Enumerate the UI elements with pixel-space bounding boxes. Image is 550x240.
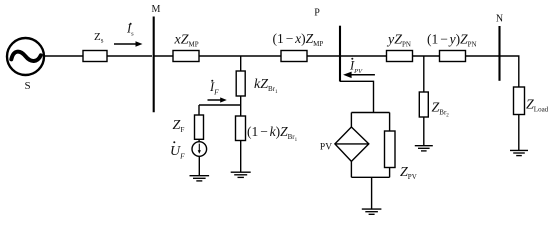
bus M bbox=[153, 17, 155, 113]
svg-text:xZMP: xZMP bbox=[174, 33, 199, 49]
label IF bbox=[209, 80, 219, 97]
label yZPN bbox=[386, 33, 411, 49]
label M bbox=[152, 4, 161, 15]
svg-text:ZLoad: ZLoad bbox=[526, 98, 549, 114]
resistor yZPN bbox=[387, 51, 413, 62]
ground below ZBr2 bbox=[415, 146, 433, 151]
wire bottom rail to ground bbox=[371, 177, 373, 208]
wire fault node to fault branch bbox=[199, 104, 241, 106]
label ZPV bbox=[400, 165, 417, 181]
wire ZLoad to ground bbox=[518, 115, 520, 151]
resistor ZF bbox=[195, 115, 204, 139]
wire yZPN to (1-y)ZPN with junction node bbox=[413, 55, 440, 57]
label xZMP bbox=[174, 33, 199, 49]
svg-text:M: M bbox=[152, 4, 161, 15]
ground below PV bbox=[362, 209, 382, 214]
label Zs bbox=[94, 31, 104, 45]
label (1-x)ZMP bbox=[273, 31, 324, 48]
svg-text:Is: Is bbox=[126, 22, 134, 38]
label IPV bbox=[349, 58, 363, 75]
wire bus M to xZMP bbox=[153, 55, 173, 57]
wire kZBr1 to fault node bbox=[240, 96, 242, 116]
label Is bbox=[126, 22, 134, 38]
svg-text:kZBr1: kZBr1 bbox=[254, 77, 278, 95]
PV top rail bbox=[351, 112, 389, 114]
svg-text:(1 − k)ZBr1: (1 − k)ZBr1 bbox=[247, 124, 298, 143]
wire Zs to bus M bbox=[107, 55, 152, 57]
label ZF bbox=[173, 118, 185, 134]
svg-text:ZF: ZF bbox=[173, 118, 185, 134]
wire bus N to ZLoad bbox=[500, 56, 519, 87]
label S bbox=[24, 80, 30, 92]
ground below (1-k)ZBr1 bbox=[231, 172, 251, 177]
ground below ZLoad bbox=[510, 150, 528, 155]
wire PV source to bottom rail bbox=[350, 161, 352, 177]
resistor (1-y)ZPN bbox=[440, 51, 466, 62]
svg-text:N: N bbox=[496, 14, 503, 25]
wire (1-x)ZMP to bus P bbox=[307, 55, 340, 57]
ground below UF bbox=[190, 176, 210, 181]
label UF bbox=[170, 141, 185, 160]
wire junction to kZBr1 bbox=[240, 56, 242, 72]
resistor Zs bbox=[83, 51, 107, 62]
resistor xZMP bbox=[173, 51, 199, 62]
current arrow IF bbox=[208, 97, 227, 102]
wire ZF to UF bbox=[198, 139, 200, 142]
wire (1-y)ZPN to bus N bbox=[466, 55, 500, 57]
wire top rail to ZPV bbox=[389, 113, 391, 132]
label ZBr2 bbox=[432, 101, 450, 119]
svg-text:ZBr2: ZBr2 bbox=[432, 101, 450, 119]
resistor ZLoad bbox=[514, 87, 525, 115]
wire top rail to PV source bbox=[350, 113, 352, 128]
svg-text:Zs: Zs bbox=[94, 31, 104, 45]
label ZLoad bbox=[526, 98, 549, 114]
resistor kZBr1 bbox=[236, 71, 245, 96]
svg-text:UF: UF bbox=[170, 144, 185, 161]
current arrow Is bbox=[114, 41, 143, 47]
svg-text:ZPV: ZPV bbox=[400, 165, 417, 181]
svg-text:PV: PV bbox=[320, 143, 332, 153]
label P bbox=[314, 8, 320, 19]
svg-text:S: S bbox=[24, 80, 30, 92]
wire bus P to yZPN bbox=[340, 55, 387, 57]
svg-text:IF: IF bbox=[209, 80, 219, 97]
wire junction to ZBr2 bbox=[423, 56, 425, 92]
svg-text:yZPN: yZPN bbox=[386, 33, 411, 49]
svg-text:(1 − x)ZMP: (1 − x)ZMP bbox=[273, 31, 324, 48]
bus P bbox=[339, 26, 341, 82]
AC source S bbox=[7, 38, 44, 75]
wire UF to ground bbox=[198, 156, 200, 175]
label PV bbox=[320, 143, 332, 153]
voltage source UF bbox=[192, 142, 207, 157]
label N bbox=[496, 14, 503, 25]
label (1-k)ZBr1 bbox=[247, 124, 298, 143]
PV current source (diamond) bbox=[335, 127, 369, 161]
wire xZMP to (1-x)ZMP with junction node bbox=[199, 55, 281, 57]
svg-text:P: P bbox=[314, 8, 320, 19]
resistor ZBr2 bbox=[419, 92, 428, 117]
wire ZPV to bottom rail bbox=[389, 168, 391, 178]
resistor ZPV bbox=[385, 131, 396, 168]
label (1-y)ZPN bbox=[427, 32, 477, 49]
wire fault branch down to ZF bbox=[198, 105, 200, 115]
svg-text:(1 − y)ZPN: (1 − y)ZPN bbox=[427, 32, 477, 49]
resistor (1-k)ZBr1 bbox=[236, 116, 246, 141]
resistor (1-x)ZMP bbox=[281, 51, 307, 62]
bus N bbox=[498, 26, 500, 81]
wire ZBr2 to ground bbox=[423, 117, 425, 145]
PV bottom rail bbox=[351, 176, 389, 178]
current arrow IPV bbox=[343, 72, 375, 79]
wire bus P to PV branch bbox=[340, 81, 374, 112]
wire source to Zs bbox=[44, 55, 83, 57]
label kZBr1 bbox=[254, 77, 278, 95]
wire (1-k)ZBr1 to ground bbox=[240, 141, 242, 172]
